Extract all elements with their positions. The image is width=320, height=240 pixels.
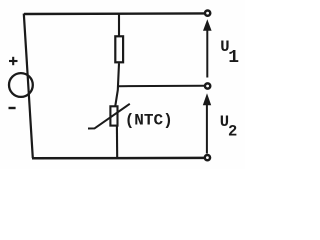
svg-text:1: 1 — [228, 48, 239, 68]
terminal node top — [205, 10, 210, 15]
resistor R1 — [115, 36, 123, 62]
plus polarity label — [9, 57, 18, 65]
arrow U1 — [203, 19, 212, 77]
wire middle rail — [118, 85, 204, 87]
label U2 — [220, 113, 238, 140]
wire thermistor to bottom rail — [116, 126, 118, 159]
wire top rail — [24, 12, 205, 15]
wire left rail — [24, 14, 33, 159]
arrow U2 — [203, 93, 211, 153]
wire middle branch upper — [118, 13, 120, 36]
terminal node bottom — [205, 155, 210, 160]
wire resistor to junction — [115, 63, 119, 106]
thermistor diagonal stroke — [88, 104, 130, 129]
svg-text:(NTC): (NTC) — [125, 112, 173, 130]
minus polarity label — [9, 107, 16, 109]
svg-text:2: 2 — [228, 123, 237, 141]
thermistor R2 (NTC) — [110, 106, 117, 125]
voltage source V1 — [9, 73, 33, 97]
terminal node middle — [205, 83, 210, 88]
label U1 — [220, 38, 239, 68]
wire bottom rail — [32, 157, 205, 160]
